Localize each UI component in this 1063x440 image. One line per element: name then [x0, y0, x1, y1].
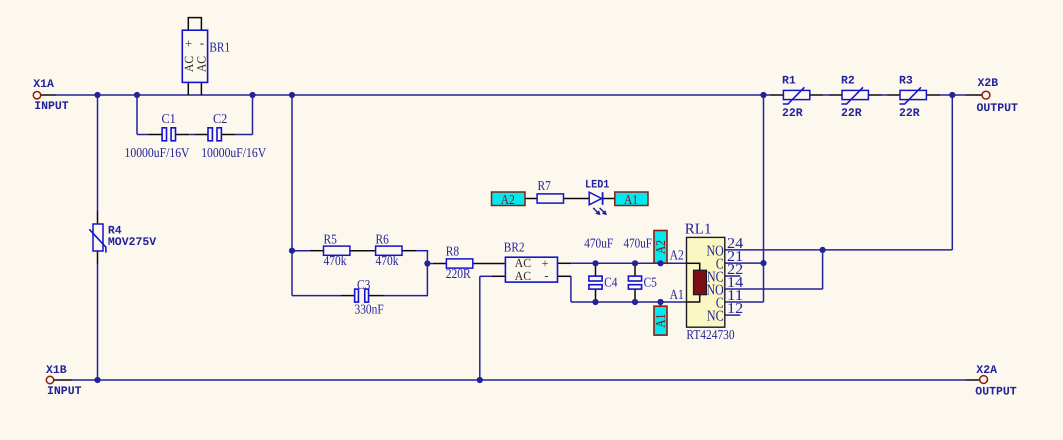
svg-text:A1: A1 — [653, 314, 668, 328]
svg-text:22R: 22R — [782, 107, 803, 120]
svg-text:330nF: 330nF — [355, 302, 385, 317]
svg-text:C5: C5 — [644, 274, 658, 289]
svg-text:22R: 22R — [841, 107, 862, 120]
svg-text:12: 12 — [727, 301, 743, 317]
svg-text:RL1: RL1 — [685, 221, 712, 237]
svg-text:220R: 220R — [446, 266, 471, 281]
svg-text:X2A: X2A — [976, 364, 997, 377]
svg-text:10000uF/16V: 10000uF/16V — [201, 145, 266, 160]
svg-text:OUTPUT: OUTPUT — [975, 385, 1017, 398]
svg-text:INPUT: INPUT — [47, 385, 82, 398]
svg-text:BR1: BR1 — [209, 39, 230, 54]
svg-text:C2: C2 — [213, 111, 227, 126]
svg-text:470uF: 470uF — [624, 236, 653, 251]
svg-text:A2: A2 — [670, 248, 684, 263]
svg-text:10000uF/16V: 10000uF/16V — [125, 145, 190, 160]
svg-text:A1: A1 — [670, 288, 684, 303]
svg-text:R2: R2 — [841, 74, 855, 87]
svg-text:BR2: BR2 — [504, 240, 525, 255]
svg-text:AC: AC — [515, 256, 531, 270]
svg-text:LED1: LED1 — [585, 179, 609, 192]
svg-text:X1B: X1B — [46, 364, 67, 377]
svg-text:OUTPUT: OUTPUT — [977, 102, 1019, 115]
svg-text:NC: NC — [707, 309, 724, 325]
svg-text:-: - — [544, 268, 548, 282]
svg-text:+: + — [185, 36, 192, 50]
svg-text:470k: 470k — [376, 253, 399, 268]
svg-text:AC: AC — [515, 269, 531, 283]
svg-text:R5: R5 — [324, 231, 338, 246]
svg-text:R8: R8 — [446, 243, 460, 258]
svg-text:R6: R6 — [376, 231, 390, 246]
svg-text:AC: AC — [195, 56, 209, 72]
svg-text:X2B: X2B — [978, 77, 999, 90]
svg-text:470k: 470k — [324, 253, 347, 268]
svg-text:A2: A2 — [501, 192, 515, 207]
svg-text:-: - — [200, 36, 204, 50]
svg-text:X1A: X1A — [33, 78, 54, 91]
svg-text:C1: C1 — [162, 111, 176, 126]
svg-text:R1: R1 — [782, 74, 796, 87]
svg-text:INPUT: INPUT — [34, 100, 69, 113]
svg-text:C4: C4 — [604, 274, 618, 289]
svg-text:A1: A1 — [624, 192, 638, 207]
svg-text:RT424730: RT424730 — [686, 327, 734, 342]
svg-text:A2: A2 — [653, 240, 668, 254]
svg-text:R7: R7 — [538, 178, 552, 193]
svg-text:MOV275V: MOV275V — [108, 236, 156, 249]
svg-text:R3: R3 — [899, 74, 913, 87]
svg-text:C3: C3 — [357, 277, 371, 292]
svg-text:470uF: 470uF — [584, 236, 613, 251]
svg-text:22R: 22R — [899, 107, 920, 120]
